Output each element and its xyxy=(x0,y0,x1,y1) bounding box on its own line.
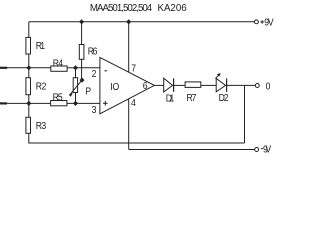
wire input 1 (left edge to R4) xyxy=(0,67,51,69)
resistor R3 xyxy=(26,117,31,133)
wire R2 bottom to node B xyxy=(28,95,30,104)
wiper arrowhead xyxy=(69,93,73,97)
wire R1 bottom to node A xyxy=(28,54,30,68)
wire -9V rail xyxy=(129,149,255,151)
terminal input 2 stub xyxy=(0,102,7,104)
wire pin 7 xyxy=(128,22,130,72)
svg-text:P: P xyxy=(85,86,91,98)
junction pot bottom on pin3 wire xyxy=(73,101,78,106)
wire +9V top rail xyxy=(29,21,254,23)
svg-text:R6: R6 xyxy=(88,46,98,58)
svg-text:R3: R3 xyxy=(36,120,47,132)
svg-text:R2: R2 xyxy=(36,81,47,93)
wire pot bottom lead xyxy=(75,93,77,104)
wire R6 top lead xyxy=(81,22,83,45)
wire R4 to pin 2 xyxy=(67,67,100,69)
op-amp U1 triangle xyxy=(100,57,154,113)
LED D2 xyxy=(216,79,225,92)
wire top-left corner down to R1 xyxy=(28,22,30,38)
svg-text:6: 6 xyxy=(143,80,148,92)
svg-text:R4: R4 xyxy=(53,58,63,70)
wire node A to R2 xyxy=(28,68,30,78)
wire R5 to pin 3 xyxy=(67,102,100,104)
svg-text:MAA501,502,504: MAA501,502,504 xyxy=(90,3,153,14)
resistor R7 xyxy=(185,82,201,88)
wire output return vertical xyxy=(244,85,246,143)
potentiometer P body xyxy=(73,78,77,93)
LED D2 arrow xyxy=(215,74,219,78)
wire pot top lead xyxy=(75,68,77,78)
wire output row: vertex to D1 xyxy=(154,84,163,86)
svg-text:R1: R1 xyxy=(36,40,45,52)
svg-text:2: 2 xyxy=(92,68,97,80)
plus of +9V label xyxy=(260,21,264,23)
diode D1 xyxy=(164,78,173,92)
svg-text:KA206: KA206 xyxy=(158,3,187,14)
wire node B to R3 xyxy=(28,103,30,117)
wire R7 to D2 xyxy=(201,84,216,86)
terminal -9V xyxy=(255,148,259,152)
terminal input 1 stub xyxy=(0,67,7,69)
resistor R5 xyxy=(51,101,67,106)
LED D2 arrowhead xyxy=(217,73,221,77)
wire R6 bottom lead to wiper node xyxy=(81,59,83,80)
svg-text:R5: R5 xyxy=(53,92,63,104)
svg-text:D2: D2 xyxy=(219,93,229,105)
svg-text:3: 3 xyxy=(92,104,97,116)
junction node A xyxy=(26,65,31,70)
wire pin 4 xyxy=(128,99,130,150)
junction wiper to R6 xyxy=(80,78,85,83)
svg-text:9V: 9V xyxy=(263,144,272,156)
junction R6 on +9V rail xyxy=(79,19,84,24)
minus of -9V label xyxy=(261,148,263,150)
svg-text:D1: D1 xyxy=(166,93,175,105)
junction pot top on pin2 wire xyxy=(73,65,78,70)
terminal +9V xyxy=(254,20,258,24)
svg-text:4: 4 xyxy=(131,97,136,109)
svg-text:9V: 9V xyxy=(264,17,274,29)
resistor R6 xyxy=(79,45,84,60)
junction pin7 on +9V rail xyxy=(126,19,131,24)
resistor R4 xyxy=(51,66,67,71)
op-amp plus sign xyxy=(103,102,108,104)
wire D1 to R7 xyxy=(174,84,185,86)
wire input 2 (left edge to R5) xyxy=(0,102,51,104)
svg-text:O: O xyxy=(113,81,120,93)
potentiometer wiper arrow xyxy=(70,80,82,95)
resistor R1 xyxy=(26,37,31,54)
svg-text:R7: R7 xyxy=(186,93,196,105)
terminal output 0 xyxy=(255,84,259,88)
svg-text:7: 7 xyxy=(131,63,136,75)
resistor R2 xyxy=(26,78,31,95)
svg-text:0: 0 xyxy=(266,81,271,93)
op-amp minus sign xyxy=(104,70,107,72)
wire D2 to output terminal xyxy=(227,84,255,86)
wire R3 bottom to output return line xyxy=(29,133,245,143)
junction node B xyxy=(26,101,31,106)
